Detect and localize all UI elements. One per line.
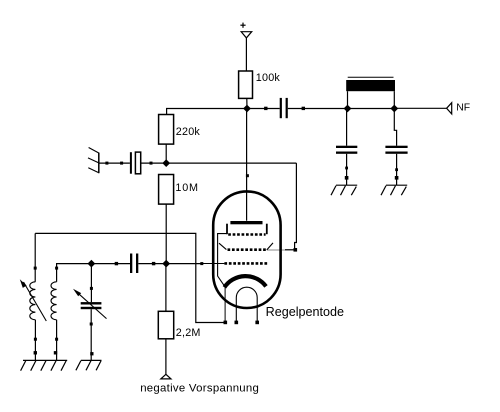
pin dot: [395, 168, 398, 171]
grid 1 (control): [224, 262, 267, 265]
wire series capacitor to node: [138, 263, 166, 265]
wire bus between choke terminals: [348, 108, 395, 110]
pin dot: [55, 338, 58, 341]
variable capacitor: [73, 289, 107, 319]
pin dot (heater left): [235, 321, 239, 325]
ground (left shunt): [331, 185, 357, 195]
svg-text:10M: 10M: [175, 182, 198, 194]
pin dot: [150, 162, 153, 165]
wire left shunt capacitor to ground: [346, 154, 348, 186]
svg-text:220k: 220k: [176, 126, 201, 138]
pin dot: [345, 167, 348, 170]
wire variable capacitor to ground: [90, 309, 92, 360]
pin dot: [302, 107, 305, 110]
pin dot (cathode): [224, 321, 228, 325]
antenna: [88, 148, 99, 174]
pin dot: [105, 162, 108, 165]
pin dot: [34, 338, 37, 341]
capacitor (grid series): [130, 254, 138, 274]
wire supply to 100k: [245, 38, 247, 71]
terminal NF: [447, 103, 452, 114]
grid 1 lead thin: [202, 263, 224, 265]
wire choke left to capacitor: [346, 109, 348, 146]
wire 100k to node: [246, 98, 248, 108]
wire left coil to ground: [34, 320, 36, 361]
capacitor (right shunt): [385, 146, 407, 154]
wire to screen grid: [285, 249, 295, 251]
node (choke right): [390, 105, 398, 113]
wire right shunt capacitor to ground: [396, 154, 398, 186]
pin dot (anode): [246, 174, 249, 177]
wire coupling capacitor to transformer: [288, 108, 348, 110]
resistor 220k: [159, 115, 174, 145]
svg-text:2,2M: 2,2M: [176, 327, 201, 339]
pin dot: [55, 267, 58, 270]
pin dot: [264, 107, 267, 110]
pin dot (screen junction): [294, 248, 298, 252]
ground (coils): [21, 360, 68, 370]
svg-text:100k: 100k: [256, 72, 281, 84]
capacitor (output coupling): [280, 98, 288, 118]
anode: [230, 221, 262, 224]
pin dot: [34, 267, 37, 270]
wire left coil top lead: [34, 233, 36, 281]
pin dot: [54, 351, 57, 354]
anode lead: [246, 109, 248, 221]
transformer / AF choke: [346, 77, 395, 108]
wire bus to coupling capacitor: [247, 108, 280, 110]
pin dot: [345, 176, 349, 180]
node (anode junction): [243, 105, 251, 113]
ground (variable capacitor): [76, 360, 102, 370]
pin dot (heater right): [255, 321, 259, 325]
screen grid lead (thin): [267, 249, 285, 251]
variable inductor (left coil): [30, 282, 36, 320]
pin dot (grid 1): [200, 262, 203, 265]
wire node to variable capacitor: [90, 264, 92, 303]
pin dot: [90, 323, 93, 326]
pin dot: [152, 262, 155, 265]
resistor 10M: [159, 175, 174, 205]
svg-text:negative Vorspannung: negative Vorspannung: [140, 383, 259, 395]
pin dot: [90, 352, 93, 355]
pin dot: [115, 262, 118, 265]
wire right coil to ground: [56, 320, 58, 361]
node (choke left): [344, 105, 352, 113]
node (tuned circuit junction): [88, 260, 96, 268]
wire choke right to capacitor (with jog): [394, 109, 396, 146]
grid 2 (screen): [219, 243, 273, 250]
wire top bus left: [167, 109, 247, 115]
pin dot: [90, 287, 93, 290]
wire node to series capacitor: [91, 263, 130, 265]
node (grid 1 junction): [162, 260, 170, 268]
arrow of variable inductor: [20, 279, 47, 321]
pin dot: [34, 351, 37, 354]
grid 1 lead: [166, 263, 202, 265]
cathode: [224, 276, 266, 287]
terminal negative Vorspannung: [161, 374, 171, 379]
terminal + (supply): [240, 23, 251, 38]
wire node to screen-grid drop: [166, 162, 296, 164]
resistor 2,2M: [158, 311, 173, 339]
grid 3 (suppressor): [227, 224, 267, 235]
resistor 100k: [239, 71, 253, 98]
pin dot: [120, 162, 123, 165]
svg-text:Regelpentode: Regelpentode: [266, 305, 344, 319]
cathode lead: [224, 288, 226, 323]
wire screen-grid drop: [295, 163, 297, 250]
tube (Regelpentode) envelope: [213, 191, 280, 308]
ground (right shunt): [381, 185, 407, 195]
wire node to 2,2M: [165, 264, 167, 312]
wire capacitor to node: [141, 162, 167, 164]
wire 2,2M to bias terminal: [165, 339, 167, 375]
wire 220k to node: [165, 144, 167, 163]
wire right coil top: [57, 264, 92, 282]
wire to NF terminal: [394, 107, 446, 109]
grid 3 to cathode link: [218, 234, 227, 287]
capacitor (left shunt): [336, 146, 357, 154]
pin dot: [395, 176, 399, 180]
wire cathode return (left loop): [35, 233, 225, 322]
wire 10M to lower node: [165, 204, 167, 264]
heater: [236, 287, 257, 321]
capacitor (antenna coupling, electrolytic style): [130, 152, 141, 174]
wire antenna to capacitor: [99, 162, 130, 164]
node (grid bias junction): [162, 159, 170, 167]
inductor (right coil): [51, 282, 57, 320]
svg-text:NF: NF: [456, 102, 470, 113]
